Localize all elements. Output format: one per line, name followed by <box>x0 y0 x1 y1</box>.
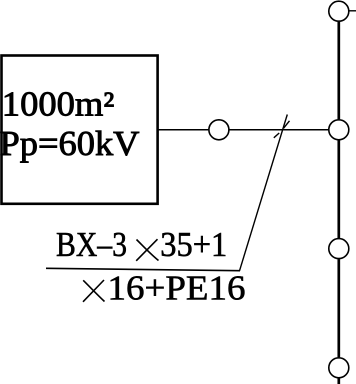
stub wire right of node N1 <box>349 10 356 12</box>
wire: meter circle to bus node <box>229 129 328 131</box>
fraction bar under cable label <box>46 268 240 270</box>
bus segment N3-N4 <box>337 259 340 357</box>
bus node N2 (junction with feeder) <box>329 120 349 140</box>
leader line from wire to cable label <box>240 115 288 271</box>
bus segment below N4 <box>337 378 340 384</box>
load box (consumer block) <box>2 56 158 204</box>
tick mark upper on leader <box>284 121 290 128</box>
svg-text:BX–3: BX–3 <box>56 225 127 264</box>
wire: box to meter circle <box>157 129 209 131</box>
svg-text:1000m²: 1000m² <box>2 84 114 123</box>
multiplication sign 1 <box>136 239 158 261</box>
bus node N4 (bottom circle) <box>329 358 349 378</box>
bus node N1 (top circle) <box>329 1 349 21</box>
meter circle on feeder wire <box>209 120 229 140</box>
bus segment N2-N3 <box>337 140 340 238</box>
multiplication sign 2 <box>83 280 105 302</box>
bus segment N1-N2 <box>337 22 340 120</box>
tick mark lower on leader <box>274 133 279 138</box>
svg-text:35+1: 35+1 <box>160 225 227 264</box>
svg-text:Pp=60kV: Pp=60kV <box>0 124 140 163</box>
bus node N3 <box>329 239 349 259</box>
svg-text:16+PE16: 16+PE16 <box>108 269 246 308</box>
